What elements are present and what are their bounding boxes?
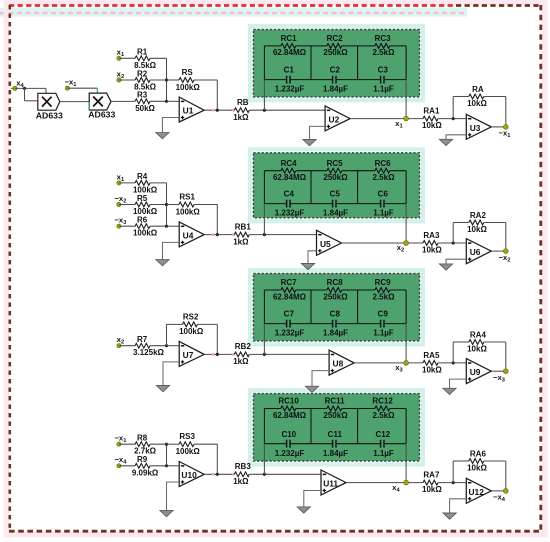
ground op-amp U3 xyxy=(439,139,452,145)
resistor RC4 xyxy=(273,159,307,182)
label -x2 xyxy=(499,253,511,264)
svg-text:U9: U9 xyxy=(470,367,481,377)
svg-text:U10: U10 xyxy=(181,470,197,480)
svg-text:100kΩ: 100kΩ xyxy=(133,229,158,238)
svg-text:C3: C3 xyxy=(378,66,389,75)
ground op-amp U6 xyxy=(439,264,452,270)
svg-text:C6: C6 xyxy=(378,190,389,199)
wire ladder rails box 4 xyxy=(264,409,406,444)
wire input row to op-amp U4 xyxy=(167,225,180,227)
node x4 input terminal xyxy=(11,86,17,90)
svg-text:62.84MΩ: 62.84MΩ xyxy=(273,411,307,420)
svg-text:R3: R3 xyxy=(137,91,148,100)
resistor R8 xyxy=(134,434,157,456)
node -x2 output xyxy=(503,249,508,254)
wire x4 loop to AD633 U13 left pin xyxy=(25,88,38,100)
wire R1 to junction column xyxy=(150,57,166,59)
wire junction column row1 xyxy=(166,58,168,101)
svg-text:C9: C9 xyxy=(378,310,389,319)
svg-text:RC5: RC5 xyxy=(327,159,344,168)
resistor RC1 xyxy=(273,34,307,57)
capacitor C6 xyxy=(373,190,394,218)
junction x4 loop xyxy=(23,87,26,90)
multiplier AD633 second xyxy=(89,93,111,110)
svg-text:RC9: RC9 xyxy=(375,278,392,287)
wire RA feedback to output xyxy=(484,97,506,127)
ground op-amp U2 xyxy=(303,140,316,146)
wire box3 right rail drop xyxy=(405,324,407,363)
wire U11 output to node xyxy=(346,482,423,484)
wire op-amp U12 plus to ground xyxy=(450,499,467,513)
resistor R3 xyxy=(135,91,155,113)
node -x1 input terminal xyxy=(65,86,69,90)
ground op-amp U11 xyxy=(297,507,310,513)
svg-text:1kΩ: 1kΩ xyxy=(233,113,249,122)
svg-text:U3: U3 xyxy=(470,123,481,133)
wire RA feedback rail xyxy=(453,97,469,119)
svg-text:RC6: RC6 xyxy=(375,159,392,168)
junction node row4 column top xyxy=(165,443,168,446)
wire x2 to R7 xyxy=(119,345,135,347)
resistor RS1 xyxy=(176,193,201,217)
svg-text:1.84µF: 1.84µF xyxy=(323,209,348,218)
resistor RC6 xyxy=(373,159,396,182)
wire x1 to R1 xyxy=(119,57,135,59)
resistor RA4 xyxy=(467,330,487,353)
svg-text:U11: U11 xyxy=(323,479,338,489)
wire RS feedback right xyxy=(194,80,217,110)
svg-text:10kΩ: 10kΩ xyxy=(467,99,487,108)
junction node row1 at R3 xyxy=(165,100,168,103)
label input &#8722;x4 row4 xyxy=(114,455,127,466)
svg-text:R2: R2 xyxy=(137,69,148,78)
resistor RA1 xyxy=(422,107,442,131)
border left dark dashed xyxy=(9,5,12,531)
resistor RC12 xyxy=(372,397,395,420)
wire x2 to R2 xyxy=(119,79,135,81)
wire RA6 feedback to output xyxy=(484,461,506,491)
svg-text:RS3: RS3 xyxy=(179,432,195,441)
border right dark dashed xyxy=(539,5,542,531)
wire &#8722;x2 to R5 xyxy=(119,204,135,206)
svg-text:R1: R1 xyxy=(137,48,148,57)
label node x4 xyxy=(392,483,400,494)
resistor RC2 xyxy=(323,34,348,57)
svg-text:100kΩ: 100kΩ xyxy=(176,83,201,92)
resistor RC11 xyxy=(323,397,348,420)
node x2 xyxy=(404,241,409,246)
wire AD633 U13 output to AD633 U14 left pin xyxy=(60,101,89,103)
resistor RA2 xyxy=(467,211,487,234)
resistor RC10 xyxy=(273,397,307,420)
artifact dot a row4 xyxy=(211,473,214,476)
resistor RA xyxy=(467,85,487,108)
op-amp U4 xyxy=(179,222,204,247)
wire U3 output xyxy=(491,126,506,128)
ground op-amp U9 xyxy=(443,388,456,394)
node input terminal &#8722;x4 row4 xyxy=(117,464,121,468)
node input terminal x2 row1 xyxy=(117,78,121,82)
label -x3 xyxy=(493,373,505,384)
op-amp U3 xyxy=(466,114,491,139)
wire U4 output xyxy=(204,234,234,236)
wire RS2 feedback right xyxy=(198,324,218,354)
resistor RB2 xyxy=(233,342,251,366)
wire op-amp U4 plus to ground xyxy=(163,242,180,259)
RC network box 3 background xyxy=(250,270,423,344)
wire U6 output xyxy=(491,250,506,252)
svg-text:100kΩ: 100kΩ xyxy=(176,447,201,456)
resistor RC3 xyxy=(373,34,396,57)
artifact dot a row1 xyxy=(211,109,214,112)
label -x1 xyxy=(499,129,511,140)
op-amp U7 xyxy=(179,341,204,366)
wire RA3 to op-amp U6 xyxy=(438,242,466,244)
label input x1 row2 xyxy=(117,172,124,183)
wire op-amp U1 plus to ground xyxy=(162,118,179,133)
node -x1 output xyxy=(503,125,508,130)
wire RB2 to op-amp U8 xyxy=(249,353,329,355)
svg-text:RC7: RC7 xyxy=(281,278,298,287)
op-amp U9 xyxy=(466,359,491,384)
artifact dot a row3 xyxy=(211,353,214,356)
svg-text:RC10: RC10 xyxy=(278,397,299,406)
capacitor C7 xyxy=(275,310,305,338)
wire RS feedback left xyxy=(167,79,180,81)
node -x3 output xyxy=(503,369,508,374)
svg-text:1kΩ: 1kΩ xyxy=(233,357,249,366)
multiplier AD633 first xyxy=(38,93,60,110)
capacitor C11 xyxy=(323,430,348,458)
wire box4 right rail drop xyxy=(405,444,407,483)
label input &#8722;x3 row2 xyxy=(114,216,126,227)
svg-text:R6: R6 xyxy=(137,216,148,225)
resistor RA6 xyxy=(467,449,487,472)
svg-text:C12: C12 xyxy=(375,430,390,439)
wire R2 to junction column xyxy=(150,79,166,81)
wire RB to op-amp U2 xyxy=(249,109,325,111)
svg-text:1.232µF: 1.232µF xyxy=(275,329,305,338)
svg-text:RA4: RA4 xyxy=(470,330,487,339)
op-amp U5 xyxy=(317,230,342,255)
label -x4 xyxy=(493,493,506,504)
wire ladder rails box 3 xyxy=(264,290,406,324)
wire op-amp U6 plus to ground xyxy=(446,259,466,264)
node input terminal x1 row1 xyxy=(117,56,121,60)
junction node row2 at R6 xyxy=(165,225,168,228)
svg-text:1.84µF: 1.84µF xyxy=(323,85,348,94)
svg-text:RA3: RA3 xyxy=(423,231,440,240)
junction RS2 feedback on output xyxy=(216,353,219,356)
wire R7 to junction column xyxy=(150,345,166,347)
svg-text:C7: C7 xyxy=(284,310,295,319)
svg-text:AD633: AD633 xyxy=(36,110,63,120)
border top right dark dashed xyxy=(456,4,542,7)
junction RS3 feedback on output xyxy=(216,473,219,476)
wire op-amp U7 plus to ground xyxy=(163,362,179,386)
svg-text:RC3: RC3 xyxy=(375,34,392,43)
wire RS3 feedback right xyxy=(194,444,217,474)
RC network box 1 background xyxy=(250,26,423,100)
op-amp U2 xyxy=(325,106,350,131)
op-amp U8 xyxy=(329,350,354,375)
resistor RA3 xyxy=(422,231,442,255)
svg-text:RA7: RA7 xyxy=(423,471,440,480)
svg-text:RA: RA xyxy=(472,85,484,94)
node x3 xyxy=(404,361,409,366)
wire U2 output to node xyxy=(350,118,423,120)
capacitor C3 xyxy=(373,66,394,94)
wire R4 to junction column xyxy=(150,182,166,184)
capacitor C9 xyxy=(373,310,394,338)
svg-text:RC11: RC11 xyxy=(325,397,346,406)
wire op-amp U2 plus to ground xyxy=(310,126,326,139)
svg-text:C10: C10 xyxy=(281,430,296,439)
resistor R2 xyxy=(134,69,157,91)
svg-text:1.232µF: 1.232µF xyxy=(275,209,305,218)
svg-text:U12: U12 xyxy=(469,487,485,497)
op-amp U10 xyxy=(179,462,204,487)
border top red dashed xyxy=(9,4,456,7)
resistor RS3 xyxy=(176,432,201,456)
svg-text:50kΩ: 50kΩ xyxy=(135,104,155,113)
ground op-amp U8 xyxy=(305,386,318,392)
svg-text:RC2: RC2 xyxy=(327,34,344,43)
svg-text:1.1µF: 1.1µF xyxy=(373,449,394,458)
wire AD633 U14 output to R3 xyxy=(111,100,135,102)
resistor RB3 xyxy=(233,462,251,486)
wire RA2 feedback to output xyxy=(484,223,506,252)
junction RA4 feedback xyxy=(452,361,455,364)
svg-text:10kΩ: 10kΩ xyxy=(422,366,442,375)
svg-text:C4: C4 xyxy=(284,190,295,199)
border pink dashed artifact line xyxy=(0,12,467,14)
label node x2 xyxy=(397,243,404,254)
wire -x1 to AD633 U14 top pin xyxy=(67,88,97,93)
svg-text:3.125kΩ: 3.125kΩ xyxy=(133,348,164,357)
wire ladder rails box 2 xyxy=(264,171,406,204)
svg-text:C1: C1 xyxy=(284,66,295,75)
svg-text:RB: RB xyxy=(237,98,249,107)
node input terminal x2 row3 xyxy=(117,344,121,348)
svg-text:RC1: RC1 xyxy=(281,34,298,43)
resistor R7 xyxy=(133,335,164,357)
ground op-amp U7 xyxy=(156,386,169,392)
wire RA4 feedback rail xyxy=(453,342,469,363)
capacitor C1 xyxy=(275,66,305,94)
junction box left rail row2 xyxy=(263,233,266,236)
svg-text:1.1µF: 1.1µF xyxy=(373,85,394,94)
ground op-amp U12 xyxy=(443,513,456,519)
wire x1 to R4 xyxy=(119,182,135,184)
capacitor C2 xyxy=(323,66,348,94)
capacitor C4 xyxy=(275,190,305,218)
wire input row to op-amp U7 xyxy=(167,345,180,347)
wire op-amp U11 plus to ground xyxy=(304,491,321,507)
resistor R4 xyxy=(133,172,158,194)
wire U10 output xyxy=(204,473,234,475)
label input &#8722;x2 row2 xyxy=(114,194,126,205)
artifact dot b row3 xyxy=(232,353,235,356)
wire RB1 to op-amp U5 xyxy=(249,234,316,236)
node x4 xyxy=(404,480,409,485)
artifact dot b row4 xyxy=(232,473,235,476)
wire U12 output xyxy=(491,490,506,492)
border cyan artifact band xyxy=(0,8,467,17)
capacitor C5 xyxy=(323,190,348,218)
label -x1 input xyxy=(65,77,77,88)
resistor RC8 xyxy=(323,278,348,301)
resistor R5 xyxy=(133,194,158,216)
svg-text:9.09kΩ: 9.09kΩ xyxy=(132,468,159,477)
op-amp U1 xyxy=(179,97,204,122)
capacitor C10 xyxy=(275,430,305,458)
svg-text:C5: C5 xyxy=(330,190,341,199)
wire R8 to junction column xyxy=(150,443,166,445)
wire &#8722;x4 to R9 xyxy=(119,465,135,467)
border bottom dark dashed xyxy=(9,530,542,533)
svg-text:C8: C8 xyxy=(330,310,341,319)
wire RS2 feedback left vertical xyxy=(167,324,183,345)
node input terminal x1 row2 xyxy=(117,181,121,185)
wire op-amp U5 plus to ground xyxy=(308,251,317,264)
wire box1 left rail drop xyxy=(263,80,265,111)
wire RS1 feedback right xyxy=(194,205,217,235)
svg-text:100kΩ: 100kΩ xyxy=(179,327,204,336)
label AD633 second xyxy=(88,109,115,119)
svg-text:2.5kΩ: 2.5kΩ xyxy=(373,48,396,57)
svg-text:RA5: RA5 xyxy=(423,351,440,360)
wire RA7 to op-amp U12 xyxy=(438,482,466,484)
resistor RB1 xyxy=(233,222,251,246)
svg-text:U7: U7 xyxy=(183,350,194,360)
junction node row2 at R5 xyxy=(165,203,168,206)
svg-text:RS1: RS1 xyxy=(179,193,195,202)
RC network box 2 background xyxy=(250,149,423,221)
svg-text:R8: R8 xyxy=(137,434,148,443)
label input x2 row3 xyxy=(117,335,124,346)
wire junction column row4 xyxy=(166,444,168,466)
wire box4 left rail drop xyxy=(263,444,265,475)
resistor RC5 xyxy=(323,159,348,182)
svg-text:RC8: RC8 xyxy=(327,278,344,287)
junction node row1 at R2 xyxy=(165,78,168,81)
svg-text:10kΩ: 10kΩ xyxy=(467,225,487,234)
label x4 xyxy=(16,79,24,90)
RC network box 4 background xyxy=(250,390,423,464)
wire RA1 to op-amp U3 xyxy=(438,118,466,120)
label input x2 row1 xyxy=(117,69,124,80)
resistor RC9 xyxy=(373,278,396,301)
op-amp U11 xyxy=(321,470,346,495)
svg-text:RS2: RS2 xyxy=(183,312,199,321)
wire input row to op-amp U10 xyxy=(167,465,180,467)
wire R6 to junction column xyxy=(150,225,166,227)
junction node row4 at R9 xyxy=(165,464,168,467)
label input x1 row1 xyxy=(117,48,124,59)
label node x1 xyxy=(395,119,402,130)
artifact dot b row2 xyxy=(232,233,235,236)
node input terminal &#8722;x3 row2 xyxy=(117,224,121,228)
svg-text:10kΩ: 10kΩ xyxy=(422,246,442,255)
op-amp U6 xyxy=(466,239,491,264)
ground op-amp U10 xyxy=(160,510,173,516)
svg-text:RB2: RB2 xyxy=(235,342,252,351)
wire x4 to AD633 U13 top pin xyxy=(15,88,46,93)
wire box2 right rail drop xyxy=(405,204,407,243)
svg-text:R5: R5 xyxy=(137,194,148,203)
label node x3 xyxy=(395,363,402,374)
node input terminal &#8722;x2 row2 xyxy=(117,202,121,206)
wire R9 to junction column xyxy=(150,465,166,467)
wire U1 output xyxy=(204,109,234,111)
node -x4 output xyxy=(503,489,508,494)
label input &#8722;x1 row4 xyxy=(114,434,126,445)
wire &#8722;x1 to R8 xyxy=(119,443,135,445)
wire op-amp U10 plus to ground xyxy=(167,482,180,510)
op-amp U12 xyxy=(466,478,491,503)
svg-text:2.5kΩ: 2.5kΩ xyxy=(373,411,396,420)
resistor RA7 xyxy=(422,471,442,495)
wire op-amp U3 plus to ground xyxy=(446,135,466,140)
resistor RS xyxy=(176,68,201,92)
svg-text:100kΩ: 100kΩ xyxy=(176,207,201,216)
resistor RC7 xyxy=(273,278,307,301)
resistor RA5 xyxy=(422,351,442,375)
wire U7 output xyxy=(204,353,234,355)
svg-text:U4: U4 xyxy=(183,230,194,240)
wire box1 right rail drop xyxy=(405,80,407,119)
svg-text:250kΩ: 250kΩ xyxy=(323,173,348,182)
svg-text:62.84MΩ: 62.84MΩ xyxy=(273,173,307,182)
svg-text:RS: RS xyxy=(182,68,194,77)
wire U5 output to node xyxy=(342,242,424,244)
wire R5 to junction column xyxy=(150,204,166,206)
svg-text:2.5kΩ: 2.5kΩ xyxy=(373,292,396,301)
label AD633 first xyxy=(36,110,63,120)
svg-text:250kΩ: 250kΩ xyxy=(323,48,348,57)
svg-text:R7: R7 xyxy=(137,335,148,344)
resistor RS2 xyxy=(179,312,204,336)
svg-text:RA1: RA1 xyxy=(423,107,440,116)
artifact dot b row1 xyxy=(232,109,235,112)
wire junction column row2 xyxy=(166,183,168,226)
svg-text:U8: U8 xyxy=(333,359,344,369)
svg-text:1.84µF: 1.84µF xyxy=(323,449,348,458)
svg-text:1.232µF: 1.232µF xyxy=(275,449,305,458)
wire U8 output to node xyxy=(354,362,423,364)
junction RA2 feedback xyxy=(452,241,455,244)
wire &#8722;x3 to R6 xyxy=(119,225,135,227)
junction box left rail row1 xyxy=(263,109,266,112)
svg-text:62.84MΩ: 62.84MΩ xyxy=(273,292,307,301)
wire RS3 feedback left xyxy=(167,443,180,445)
svg-text:RB3: RB3 xyxy=(235,462,252,471)
wire RS1 feedback left xyxy=(167,204,180,206)
wire input row to op-amp U1 xyxy=(167,100,180,102)
svg-text:1.232µF: 1.232µF xyxy=(275,85,305,94)
junction RA6 feedback xyxy=(452,481,455,484)
wire U9 output xyxy=(491,370,506,372)
wire RA4 feedback to output xyxy=(484,342,506,371)
capacitor C8 xyxy=(323,310,348,338)
svg-text:RC12: RC12 xyxy=(372,397,393,406)
wire box2 left rail drop xyxy=(263,204,265,235)
svg-text:U1: U1 xyxy=(183,106,194,116)
resistor R9 xyxy=(132,455,159,477)
svg-text:C2: C2 xyxy=(330,66,341,75)
resistor RB xyxy=(233,98,249,122)
